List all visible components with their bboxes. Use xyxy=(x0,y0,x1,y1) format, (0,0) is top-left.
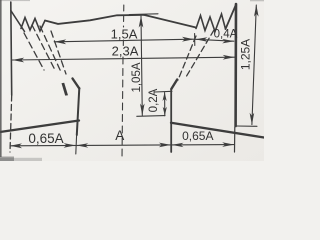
wire sag from left mast xyxy=(11,11,25,32)
right top wire from apex xyxy=(144,15,196,28)
svg-text:1,25A: 1,25A xyxy=(238,39,252,70)
right dashed guy line 2 xyxy=(186,30,214,77)
scan artifact top-right sliver xyxy=(250,0,264,1)
left wire end stroke (thick comma) xyxy=(62,83,69,96)
svg-text:1,5A: 1,5A xyxy=(111,26,138,41)
left pole extension xyxy=(75,135,78,154)
scan artifact bottom-left smudge xyxy=(0,158,42,161)
left pole xyxy=(77,88,80,135)
left dashed guy line 2 xyxy=(32,25,55,70)
pole-top reference tick xyxy=(155,90,172,93)
right zigzag (wire break symbol) xyxy=(196,14,226,32)
arrowhead down at level tick xyxy=(140,104,145,116)
apex reference tick xyxy=(130,13,159,16)
arrowhead left 0,4A xyxy=(195,37,207,42)
arrowhead up 0,2A xyxy=(163,92,167,101)
wire rise to right mast top xyxy=(226,5,237,30)
left dashed guy line 1 xyxy=(24,33,44,70)
left pole bent tip xyxy=(73,79,80,89)
arrowhead left 1,5A xyxy=(54,39,66,44)
dimension line 1,05A vertical xyxy=(141,16,142,116)
level reference tick xyxy=(137,115,165,118)
dimension line 0,2A vertical xyxy=(164,93,166,116)
left dashed guy line 3 xyxy=(40,26,61,72)
left zigzag (wire break symbol) xyxy=(21,18,45,32)
arrowhead right 0,4A xyxy=(222,39,234,44)
svg-text:0,65A: 0,65A xyxy=(28,131,63,146)
svg-text:0,65A: 0,65A xyxy=(182,129,213,143)
scan artifact left edge xyxy=(0,0,2,157)
dimension line 1,25A vertical xyxy=(252,5,256,125)
right dashed guy line 1 xyxy=(178,36,196,80)
right pole bent tip xyxy=(171,80,177,90)
left mast xyxy=(10,2,13,95)
left dashed guy line 4 xyxy=(51,31,66,74)
arrowhead right 2,3A xyxy=(223,55,235,60)
left top wire to apex xyxy=(45,15,144,24)
arrowhead right 0,65A right xyxy=(222,142,234,147)
right roof line xyxy=(171,123,264,138)
right mast xyxy=(234,4,237,126)
svg-text:1,05A: 1,05A xyxy=(131,62,143,92)
svg-text:2,3A: 2,3A xyxy=(112,43,139,58)
arrowhead down 1,25A xyxy=(250,113,255,125)
bottom dimension line xyxy=(10,145,234,146)
scan artifact top-left sliver xyxy=(0,0,30,1)
right pole xyxy=(170,89,172,152)
svg-text:A: A xyxy=(115,128,124,143)
left mast extension (dashed, below roof) xyxy=(10,95,12,152)
left roof line xyxy=(0,121,79,133)
arrowhead left 0,65A left xyxy=(10,143,22,148)
right mast extension below base xyxy=(234,127,236,152)
svg-text:0,2A: 0,2A xyxy=(148,88,160,112)
arrowhead up 1,25A xyxy=(254,5,259,17)
arrowhead right-pointing at right pole xyxy=(159,143,171,148)
extension tick between 1,5A and 0,4A xyxy=(194,34,196,46)
svg-text:0,4A: 0,4A xyxy=(214,29,238,41)
dimension line 0,4A xyxy=(196,39,234,41)
centre axis dashed line xyxy=(123,5,125,27)
right mast base tick xyxy=(237,125,258,127)
dimension line 2,3A xyxy=(12,57,234,60)
dimension line 1,5A xyxy=(54,39,193,42)
arrowhead up at apex xyxy=(139,16,144,28)
arrowhead right-pointing at left pole xyxy=(64,143,76,148)
arrowhead left-pointing at right pole xyxy=(172,143,184,147)
arrowhead left 2,3A xyxy=(12,58,24,63)
arrowhead left-pointing at left pole xyxy=(76,143,88,147)
arrowhead down 0,2A xyxy=(163,107,167,116)
arrowhead right 1,5A xyxy=(182,37,194,42)
